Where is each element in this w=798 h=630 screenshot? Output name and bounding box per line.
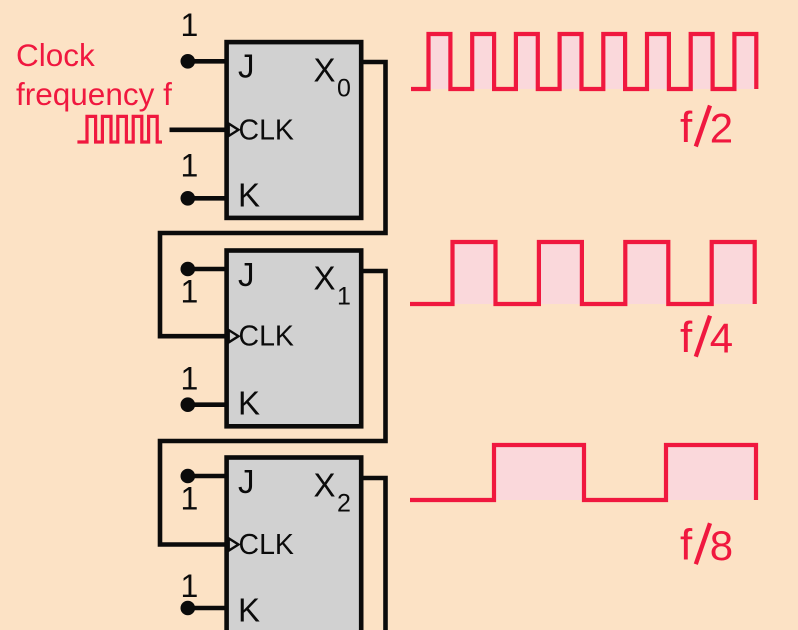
wire: Q output of U3 heading down <box>360 478 386 630</box>
svg-text:1: 1 <box>181 568 199 604</box>
svg-text:J: J <box>238 256 255 293</box>
wire: Q output of U2 to CLK of U3 <box>160 271 386 545</box>
JK flip-flop U2 (X1) body <box>227 251 362 427</box>
wire: clock input to CLK of U1 <box>170 128 228 133</box>
label f/2 <box>680 103 733 152</box>
svg-text:1: 1 <box>181 361 199 397</box>
svg-text:f: f <box>680 313 693 362</box>
svg-text:f: f <box>680 521 693 570</box>
label f/4 <box>680 313 733 362</box>
waveform f/2 fill <box>429 34 757 89</box>
waveform f/4 trace <box>410 242 755 304</box>
JK flip-flop U3 (X2) body <box>227 458 362 630</box>
label f/8 <box>680 521 733 570</box>
svg-text:K: K <box>238 176 260 213</box>
svg-text:1: 1 <box>181 274 199 310</box>
svg-text:1: 1 <box>181 148 199 184</box>
svg-text:8: 8 <box>710 522 733 569</box>
svg-text:CLK: CLK <box>239 321 294 353</box>
svg-text:2: 2 <box>337 490 351 518</box>
JK flip-flop U1 (X0) body <box>227 42 362 218</box>
svg-text:Clock: Clock <box>16 37 95 73</box>
wire: J input stub of U1 <box>188 59 228 64</box>
label "Clock frequency f" <box>16 37 172 112</box>
clock input waveform glyph <box>77 116 162 142</box>
wire: J input stub of U2 <box>188 267 228 272</box>
svg-text:0: 0 <box>337 74 351 102</box>
svg-text:f: f <box>680 103 693 152</box>
clock edge triangle of U2 <box>229 330 239 342</box>
svg-text:X: X <box>314 51 336 88</box>
svg-text:J: J <box>238 463 255 500</box>
wire: Q output of U1 to CLK of U2 <box>160 62 386 336</box>
waveform f/2 trace <box>411 34 756 89</box>
svg-text:K: K <box>238 592 260 629</box>
node: J input dot of U3 <box>181 469 196 484</box>
svg-text:4: 4 <box>710 315 733 362</box>
svg-text:J: J <box>238 48 255 85</box>
node: K input dot of U1 <box>181 191 196 206</box>
waveform f/4 fill <box>453 242 755 304</box>
svg-text:X: X <box>314 467 336 504</box>
waveform f/8 fill <box>494 445 756 500</box>
node: J input dot of U2 <box>181 262 196 277</box>
svg-text:CLK: CLK <box>239 529 294 561</box>
wire: J input stub of U3 <box>188 474 228 479</box>
wire: K input stub of U2 <box>188 402 228 407</box>
svg-text:K: K <box>238 385 260 422</box>
node: K input dot of U3 <box>181 601 196 616</box>
waveform f/8 trace <box>410 445 756 500</box>
clock edge triangle of U3 <box>229 538 239 550</box>
svg-text:CLK: CLK <box>239 114 294 146</box>
wire: K input stub of U1 <box>188 196 228 201</box>
svg-text:1: 1 <box>337 283 351 311</box>
wire: K input stub of U3 <box>188 606 228 611</box>
svg-text:2: 2 <box>710 104 733 151</box>
clock edge triangle of U1 <box>229 124 239 136</box>
node: J input dot of U1 <box>181 54 196 69</box>
svg-text:X: X <box>314 260 336 297</box>
svg-text:frequency f: frequency f <box>16 76 172 112</box>
svg-text:1: 1 <box>181 481 199 517</box>
svg-text:1: 1 <box>181 7 199 43</box>
node: K input dot of U2 <box>181 397 196 412</box>
